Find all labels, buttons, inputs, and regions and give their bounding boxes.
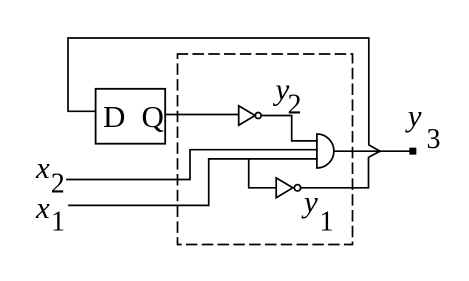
svg-text:2: 2 — [288, 89, 302, 120]
dashed combinational-logic box — [178, 54, 353, 245]
wire: input x2 to AND gate middle input — [67, 150, 317, 180]
inverter U3 triangle (drives y1) — [276, 178, 293, 198]
wire: y2 node to AND gate top input — [261, 116, 317, 141]
svg-text:y: y — [405, 98, 422, 133]
inverter U2 bubble — [255, 113, 261, 119]
svg-text:Q: Q — [142, 99, 164, 134]
wire: y1 output to merge node — [301, 151, 380, 188]
wire: Q output to inverter U2 input — [165, 114, 239, 116]
svg-text:1: 1 — [51, 207, 65, 238]
wire: input x1 to AND gate bottom input — [69, 159, 317, 206]
svg-text:3: 3 — [427, 124, 441, 155]
svg-text:x: x — [35, 150, 50, 185]
svg-text:1: 1 — [320, 207, 334, 238]
wire: feedback loop from output merge node to D input — [68, 38, 380, 151]
D flip-flop U1 box — [96, 89, 166, 144]
svg-text:2: 2 — [51, 168, 65, 199]
svg-text:y: y — [301, 184, 318, 219]
svg-text:x: x — [35, 190, 50, 225]
terminal square y3 — [410, 149, 415, 154]
inverter U2 triangle (drives y2) — [239, 106, 255, 125]
svg-text:D: D — [103, 99, 125, 134]
wire: x1 branch tap to inverter U3 input — [249, 159, 277, 188]
inverter U3 bubble — [294, 185, 300, 191]
wire: AND gate output through merge node to terminal y3 — [334, 150, 410, 152]
AND gate U4 — [317, 134, 334, 168]
